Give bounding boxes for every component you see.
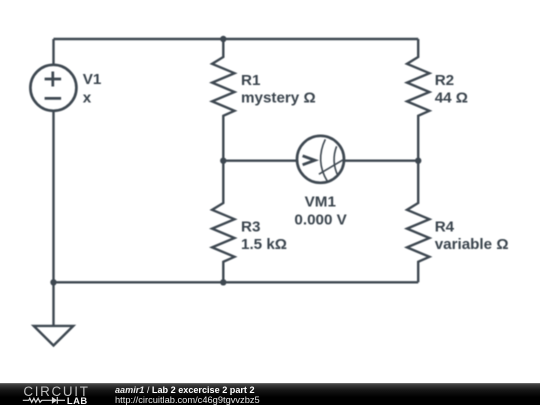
svg-text:LAB: LAB	[67, 395, 88, 405]
svg-text:R3: R3	[241, 218, 260, 235]
svg-text:mystery Ω: mystery Ω	[241, 90, 316, 107]
svg-text:R2: R2	[435, 72, 454, 89]
svg-text:R1: R1	[241, 72, 261, 89]
svg-text:1.5 kΩ: 1.5 kΩ	[241, 236, 287, 253]
svg-text:44 Ω: 44 Ω	[435, 90, 468, 107]
svg-text:variable Ω: variable Ω	[435, 236, 509, 253]
svg-text:V1: V1	[83, 71, 102, 88]
svg-text:x: x	[83, 90, 92, 107]
svg-text:0.000 V: 0.000 V	[294, 211, 347, 228]
svg-text:VM1: VM1	[305, 194, 337, 211]
svg-text:R4: R4	[435, 218, 455, 235]
